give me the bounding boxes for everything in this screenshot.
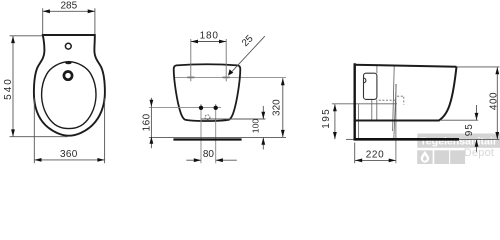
svg-text:540: 540 xyxy=(3,77,14,100)
svg-text:320: 320 xyxy=(271,99,282,116)
svg-text:195: 195 xyxy=(321,108,332,129)
svg-text:285: 285 xyxy=(60,1,77,12)
svg-text:95: 95 xyxy=(464,123,475,136)
svg-text:Tegelensanitair: Tegelensanitair xyxy=(420,136,497,148)
svg-text:80: 80 xyxy=(203,149,215,160)
svg-text:160: 160 xyxy=(141,113,152,131)
svg-text:Depot: Depot xyxy=(464,147,494,159)
svg-text:360: 360 xyxy=(60,149,78,160)
svg-text:400: 400 xyxy=(488,92,499,110)
svg-text:100: 100 xyxy=(250,119,260,134)
svg-text:180: 180 xyxy=(200,30,219,41)
svg-text:220: 220 xyxy=(366,149,385,160)
